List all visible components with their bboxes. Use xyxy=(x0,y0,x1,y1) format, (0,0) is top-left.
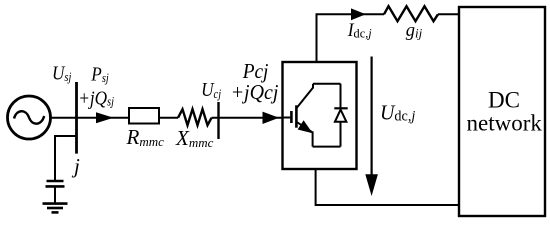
label Usj xyxy=(52,62,71,85)
transistor Q1 collector lead xyxy=(296,84,313,109)
wire: bus to resistor Rmmc xyxy=(77,117,130,119)
svg-text:network: network xyxy=(467,111,543,136)
transistor Q1 emitter lead xyxy=(296,122,312,133)
transistor Q1 gate bar xyxy=(290,111,293,123)
transistor Q1 gate lead xyxy=(283,117,291,119)
svg-text:+jQcj: +jQcj xyxy=(231,82,279,105)
diode D1 triangle xyxy=(335,110,347,122)
node Ucj bar xyxy=(217,102,219,139)
ground xyxy=(43,204,68,213)
inductor Xmmc zigzag xyxy=(178,109,212,125)
label Pcj xyxy=(242,61,269,84)
label Udcj xyxy=(380,102,415,125)
wire: source to bus xyxy=(51,117,77,119)
converter box U1 xyxy=(283,62,357,169)
label +jQsj xyxy=(78,87,114,110)
label Ucj xyxy=(201,79,221,102)
label Psj xyxy=(90,63,108,86)
wire: capacitor to ground xyxy=(54,186,56,203)
svg-text:DC: DC xyxy=(488,88,520,113)
capacitor C1 plate bottom xyxy=(46,185,65,188)
wire: Xmmc to converter xyxy=(212,117,283,119)
label Idcj xyxy=(347,20,372,41)
AC source G1 circle xyxy=(8,96,51,139)
diode D1 cathode lead xyxy=(340,84,342,109)
label +jQcj xyxy=(231,82,279,105)
arrow: AC power flow Psj xyxy=(96,112,114,123)
arrow: power flow Pcj into converter xyxy=(263,112,280,124)
resistor gij zigzag xyxy=(384,6,438,21)
wire: emitter to bottom rail xyxy=(312,131,314,146)
wire: gij to DC network xyxy=(438,13,459,15)
svg-text:Pcj: Pcj xyxy=(242,61,269,84)
wire: Rmmc to Xmmc xyxy=(159,117,178,119)
wire: bus branch to shunt capacitor xyxy=(55,136,77,181)
transistor Q1 emitter arrow xyxy=(298,120,313,133)
arrow: DC current Idcj xyxy=(351,8,366,20)
wire: converter internal bottom rail xyxy=(313,146,341,148)
wire: converter top pin to DC rail xyxy=(317,14,385,62)
AC source G1 sine wave xyxy=(14,111,44,123)
transistor Q1 body bar xyxy=(295,105,298,127)
resistor Rmmc xyxy=(129,108,159,124)
wire: converter bottom pin to DC network xyxy=(316,169,459,205)
capacitor C1 plate top xyxy=(47,180,64,183)
diode D1 anode lead xyxy=(340,122,342,147)
wire: converter internal top rail xyxy=(313,83,341,85)
arrow: DC voltage Udcj xyxy=(371,57,373,181)
bus bar node j xyxy=(75,82,78,154)
DC network box xyxy=(459,7,545,216)
diode D1 cathode bar xyxy=(334,107,347,109)
